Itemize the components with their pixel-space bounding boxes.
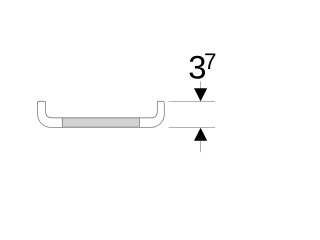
extension line top xyxy=(169,101,215,103)
arrow down xyxy=(194,88,207,101)
extension line bottom xyxy=(169,126,215,128)
profile outline (channel cross-section) xyxy=(38,101,165,127)
dimension stem above arrow xyxy=(200,82,202,90)
arrow up xyxy=(194,128,207,141)
gray insert bar xyxy=(62,118,139,127)
svg-text:7: 7 xyxy=(204,49,216,74)
dimension stem below arrow xyxy=(200,141,202,153)
